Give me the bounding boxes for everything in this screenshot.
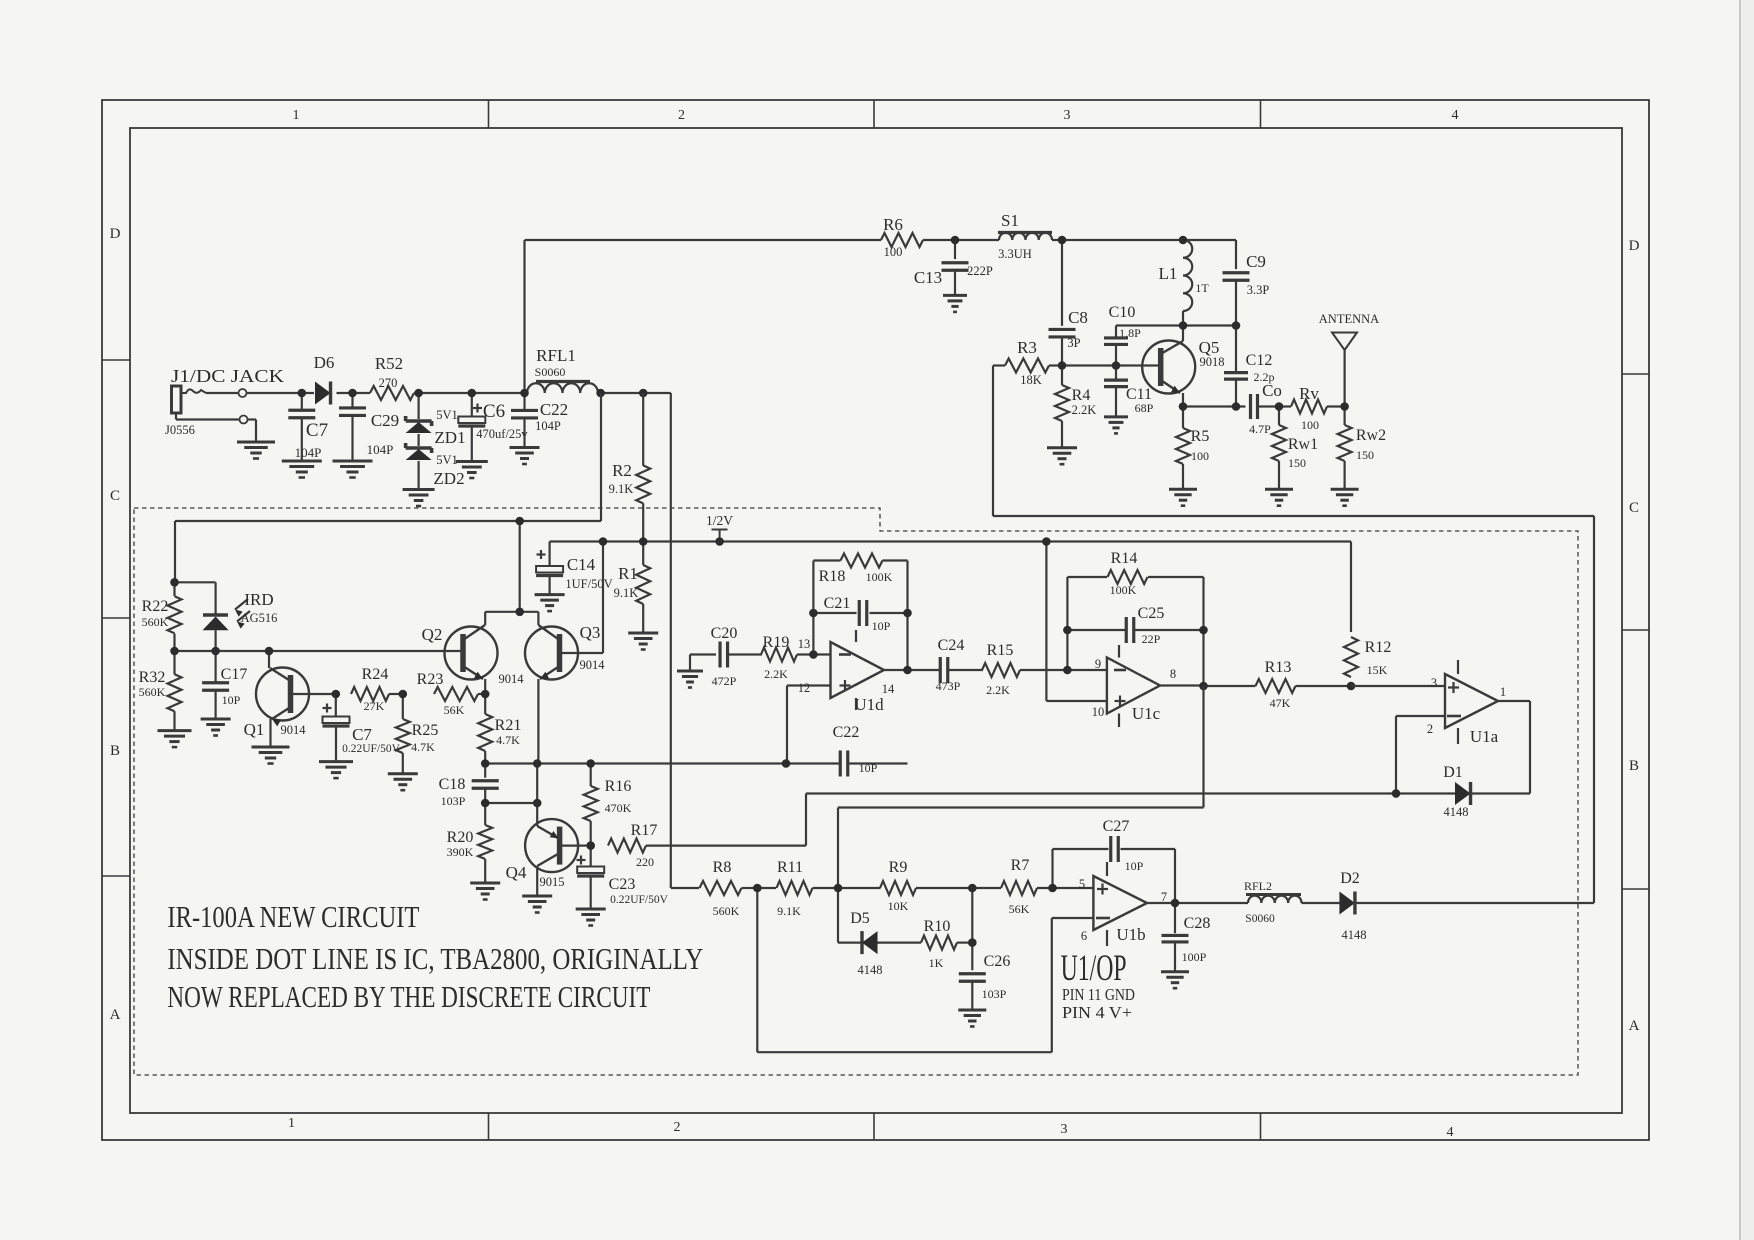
svg-text:560K: 560K <box>139 685 166 699</box>
svg-text:C6: C6 <box>483 401 505 422</box>
pin label 1 <box>1500 685 1506 699</box>
svg-text:C8: C8 <box>1068 308 1088 327</box>
svg-text:C9: C9 <box>1246 252 1266 271</box>
svg-text:B: B <box>1629 758 1639 774</box>
svg-text:9.1K: 9.1K <box>614 586 639 600</box>
svg-text:9014: 9014 <box>281 723 307 737</box>
capacitor C21 <box>813 595 907 633</box>
ground R1 <box>628 633 658 650</box>
svg-text:15K: 15K <box>1367 663 1388 677</box>
svg-text:Q3: Q3 <box>580 623 601 642</box>
resistor R18 <box>813 554 907 671</box>
capacitor C23 <box>577 846 669 906</box>
svg-text:472P: 472P <box>712 674 737 688</box>
svg-text:Q1: Q1 <box>244 720 265 739</box>
svg-text:100: 100 <box>1301 418 1319 432</box>
svg-text:470K: 470K <box>605 801 632 815</box>
svg-text:4.7K: 4.7K <box>411 740 435 754</box>
svg-text:R22: R22 <box>142 598 169 615</box>
resistor R23 <box>417 671 486 717</box>
svg-text:R12: R12 <box>1365 639 1392 656</box>
wire half-V rail <box>550 540 1351 542</box>
svg-text:R20: R20 <box>447 829 474 846</box>
ground C7 input <box>282 418 322 478</box>
pin label 10 <box>1092 705 1105 719</box>
svg-text:R9: R9 <box>889 859 908 876</box>
svg-text:D1: D1 <box>1443 764 1463 781</box>
svg-text:PIN 4 V+: PIN 4 V+ <box>1062 1003 1132 1022</box>
resistor R21 <box>478 694 521 764</box>
svg-text:Q2: Q2 <box>422 625 443 644</box>
border grid ticks <box>102 100 1649 1140</box>
border inner frame <box>130 128 1622 1113</box>
pin label 6 <box>1081 929 1087 943</box>
transistor Q2 9014 <box>422 612 525 694</box>
svg-text:9018: 9018 <box>1200 355 1225 369</box>
svg-text:A: A <box>110 1007 121 1023</box>
svg-text:4148: 4148 <box>1342 928 1367 942</box>
wire U1c output <box>1160 630 1204 686</box>
ground R4 <box>1047 421 1077 464</box>
svg-text:9014: 9014 <box>499 672 525 686</box>
border zone letters <box>110 226 1640 1034</box>
border grid numbers <box>288 108 1459 1140</box>
junction dots DC rail <box>298 389 648 398</box>
wire U1a output <box>1498 701 1530 794</box>
svg-text:103P: 103P <box>441 794 466 808</box>
resistor R7 <box>972 857 1093 916</box>
ground C28 <box>1161 942 1189 988</box>
svg-text:R25: R25 <box>412 722 439 739</box>
svg-text:R17: R17 <box>631 822 658 839</box>
wire pin8 link <box>838 686 1204 888</box>
wire S1 to C9 <box>1052 239 1236 241</box>
svg-text:R19: R19 <box>763 634 790 651</box>
capacitor C6 <box>458 393 528 441</box>
svg-text:4: 4 <box>1452 108 1459 123</box>
svg-text:150: 150 <box>1288 456 1306 470</box>
op-amp U1b <box>1093 862 1147 946</box>
svg-text:8: 8 <box>1170 667 1176 681</box>
capacitor C10 <box>1104 304 1141 366</box>
resistor R11 <box>757 859 838 918</box>
svg-text:2: 2 <box>1427 722 1433 736</box>
diode D1 <box>1396 764 1530 819</box>
resistor Rw1 <box>1272 407 1318 471</box>
svg-text:C21: C21 <box>824 595 851 612</box>
svg-text:R32: R32 <box>139 669 166 686</box>
junction dots U1d <box>782 609 912 768</box>
svg-text:56K: 56K <box>444 703 465 717</box>
resistor R12 <box>1344 542 1391 687</box>
zener ZD1 <box>406 393 466 447</box>
svg-text:C12: C12 <box>1246 352 1273 369</box>
svg-text:4148: 4148 <box>858 963 883 977</box>
wire C18 to Q4 <box>485 763 537 827</box>
resistor Rw2 <box>1338 407 1387 463</box>
resistor R22 <box>142 582 182 651</box>
svg-text:104P: 104P <box>295 445 322 460</box>
svg-text:S0060: S0060 <box>535 365 566 379</box>
svg-text:J1/DC JACK: J1/DC JACK <box>171 366 284 386</box>
svg-text:ZD2: ZD2 <box>433 469 464 488</box>
ground C13 <box>943 270 967 312</box>
svg-text:U1/OP: U1/OP <box>1061 948 1127 989</box>
wire top collector rail <box>175 393 601 582</box>
svg-text:C25: C25 <box>1138 605 1165 622</box>
capacitor C12 <box>1224 326 1275 407</box>
svg-text:5: 5 <box>1079 877 1085 891</box>
svg-text:U1b: U1b <box>1116 925 1145 944</box>
inductor L1 <box>1159 240 1210 326</box>
svg-text:C29: C29 <box>371 411 399 430</box>
title line 1 <box>167 899 419 934</box>
wire Q1 base <box>291 693 336 695</box>
svg-text:1: 1 <box>293 108 300 123</box>
svg-text:U1a: U1a <box>1470 727 1499 746</box>
svg-text:PIN 11 GND: PIN 11 GND <box>1062 985 1135 1004</box>
svg-text:C22: C22 <box>540 400 568 419</box>
svg-text:103P: 103P <box>982 987 1007 1001</box>
svg-text:220: 220 <box>636 855 654 869</box>
transistor Q4 9015 <box>506 819 591 896</box>
wire Q2 Q3 collectors <box>485 521 538 612</box>
wire R6 to S1 <box>923 239 999 241</box>
pin label 8 <box>1170 667 1176 681</box>
resistor R14 <box>1067 550 1203 670</box>
svg-text:Rw1: Rw1 <box>1288 436 1318 453</box>
svg-text:3: 3 <box>1431 676 1437 690</box>
svg-text:ZD1: ZD1 <box>434 428 465 447</box>
svg-text:R18: R18 <box>819 568 846 585</box>
svg-text:R6: R6 <box>883 215 903 234</box>
svg-text:D2: D2 <box>1340 870 1360 887</box>
border outer frame <box>102 100 1649 1140</box>
capacitor C20 <box>711 625 738 688</box>
svg-text:C10: C10 <box>1109 304 1136 321</box>
svg-text:J0556: J0556 <box>165 423 195 437</box>
svg-text:222P: 222P <box>967 264 993 278</box>
svg-text:C18: C18 <box>439 776 466 793</box>
photodiode IRD AG516 <box>175 582 278 651</box>
svg-text:5V1: 5V1 <box>436 453 458 467</box>
pin label 13 <box>798 637 811 651</box>
wire +V riser <box>525 240 882 393</box>
svg-text:R21: R21 <box>495 717 522 734</box>
ground ZD2 <box>403 461 435 506</box>
svg-text:100P: 100P <box>1182 950 1207 964</box>
label U1 OP <box>1061 948 1127 989</box>
wire U1d output <box>884 669 940 671</box>
ground C14 <box>535 576 565 612</box>
svg-text:D: D <box>110 226 121 242</box>
ground C23 <box>576 876 606 926</box>
ground C20 <box>677 655 716 688</box>
capacitor C13 <box>914 240 993 287</box>
svg-text:3.3P: 3.3P <box>1247 283 1270 297</box>
capacitor C7 022 <box>323 694 401 755</box>
ground C6 <box>456 426 488 478</box>
capacitor C7 input <box>288 393 328 460</box>
svg-text:68P: 68P <box>1135 401 1154 415</box>
svg-text:C: C <box>1629 500 1639 516</box>
svg-text:S1: S1 <box>1001 211 1019 230</box>
transistor Q3 9014 <box>525 542 605 763</box>
diode D2 <box>1339 870 1594 942</box>
wire U1c plus input <box>1046 542 1107 702</box>
ground C22 power <box>510 418 540 464</box>
svg-text:3: 3 <box>1061 1122 1068 1137</box>
wire U1b inv loop <box>757 888 1093 1052</box>
svg-text:R13: R13 <box>1265 659 1292 676</box>
svg-text:2.2K: 2.2K <box>764 667 788 681</box>
capacitor C28 <box>1162 903 1211 964</box>
svg-text:AG516: AG516 <box>241 611 278 625</box>
op-amp U1a <box>1445 660 1499 746</box>
svg-text:RFL2: RFL2 <box>1244 879 1272 893</box>
svg-text:10P: 10P <box>872 619 891 633</box>
resistor R15 <box>948 642 1107 697</box>
svg-text:R52: R52 <box>375 354 403 373</box>
svg-text:2: 2 <box>674 1120 681 1135</box>
svg-text:C27: C27 <box>1103 818 1130 835</box>
ground C29 <box>333 416 373 478</box>
pin label 9 <box>1095 657 1101 671</box>
pin label 14 <box>882 682 895 696</box>
svg-text:R2: R2 <box>612 461 632 480</box>
svg-text:D5: D5 <box>850 910 870 927</box>
svg-text:4148: 4148 <box>1444 805 1469 819</box>
capacitor C14 <box>536 542 613 592</box>
resistor R25 <box>396 694 439 774</box>
wire DC rail <box>247 393 671 888</box>
svg-text:9.1K: 9.1K <box>777 904 801 918</box>
pin label 7 <box>1161 890 1167 904</box>
svg-text:100: 100 <box>884 245 903 259</box>
transistor Q5 9018 <box>1142 326 1224 407</box>
inductor S1 <box>998 211 1052 261</box>
svg-text:INSIDE DOT LINE IS IC, TBA2800: INSIDE DOT LINE IS IC, TBA2800, ORIGINAL… <box>167 941 703 976</box>
wire R13 to U1a <box>1351 685 1445 687</box>
label PIN 11 GND <box>1062 985 1135 1004</box>
ground C26 <box>958 981 986 1026</box>
wire U1b output <box>1147 902 1248 904</box>
svg-text:C: C <box>110 488 120 504</box>
ground Rw1 <box>1265 461 1293 506</box>
svg-text:C13: C13 <box>914 268 942 287</box>
svg-text:47K: 47K <box>1270 696 1291 710</box>
ground R20 <box>470 883 500 900</box>
svg-text:9: 9 <box>1095 657 1101 671</box>
capacitor C22 fb <box>833 724 878 777</box>
svg-text:R16: R16 <box>605 778 632 795</box>
wire base rail <box>175 650 463 652</box>
svg-text:390K: 390K <box>447 845 474 859</box>
svg-text:C23: C23 <box>609 876 636 893</box>
svg-text:470uf/25v: 470uf/25v <box>476 427 528 441</box>
svg-text:100K: 100K <box>1110 583 1137 597</box>
svg-text:1: 1 <box>1500 685 1506 699</box>
svg-text:NOW REPLACED BY THE DISCRETE C: NOW REPLACED BY THE DISCRETE CIRCUIT <box>167 979 650 1014</box>
capacitor C9 <box>1223 240 1270 326</box>
resistor R2 <box>609 393 651 542</box>
title line 3 <box>167 979 650 1014</box>
resistor Rv <box>1279 384 1345 432</box>
resistor R10 <box>878 918 973 970</box>
svg-text:1: 1 <box>288 1116 295 1131</box>
svg-text:R4: R4 <box>1072 387 1091 404</box>
svg-text:RFL1: RFL1 <box>536 346 576 365</box>
svg-text:2.2K: 2.2K <box>1072 403 1097 417</box>
dashed IC boundary TBA2800 <box>134 508 1578 1075</box>
inductor RFL1 <box>527 346 598 393</box>
svg-text:ANTENNA: ANTENNA <box>1319 312 1379 326</box>
resistor R8 <box>700 859 758 918</box>
svg-text:Q4: Q4 <box>506 863 527 882</box>
svg-text:14: 14 <box>882 682 895 696</box>
resistor R24 <box>351 666 403 713</box>
svg-text:B: B <box>110 743 120 759</box>
svg-text:10K: 10K <box>888 899 909 913</box>
wire R3 to output net <box>993 366 1594 904</box>
op-amp U1d <box>831 630 885 714</box>
svg-text:10P: 10P <box>222 693 241 707</box>
svg-text:100: 100 <box>1191 449 1209 463</box>
svg-text:C22: C22 <box>833 724 860 741</box>
svg-text:13: 13 <box>798 637 811 651</box>
ground C17 <box>201 719 231 736</box>
svg-text:3.3UH: 3.3UH <box>998 247 1032 261</box>
svg-text:C14: C14 <box>567 555 596 574</box>
svg-text:104P: 104P <box>535 419 561 433</box>
junction dots U1b <box>753 884 1179 947</box>
ground jack sleeve <box>237 420 275 459</box>
svg-text:C17: C17 <box>221 666 248 683</box>
ground R32 <box>158 731 192 748</box>
junction dots input stage <box>170 517 595 850</box>
svg-text:18K: 18K <box>1020 373 1042 387</box>
wire C8 to base <box>1061 337 1063 366</box>
pin label 2 <box>1427 722 1433 736</box>
wire U1a inv input <box>1396 716 1445 794</box>
svg-text:R14: R14 <box>1111 550 1138 567</box>
svg-text:C28: C28 <box>1184 915 1211 932</box>
resistor R13 <box>1204 659 1352 710</box>
resistor R3 <box>993 338 1062 387</box>
inductor RFL2 <box>1244 879 1302 925</box>
svg-text:22P: 22P <box>1142 632 1161 646</box>
svg-text:2: 2 <box>678 108 685 123</box>
svg-text:100K: 100K <box>866 570 893 584</box>
svg-text:U1c: U1c <box>1132 704 1161 723</box>
ground Rw2 <box>1331 461 1359 506</box>
svg-text:R11: R11 <box>777 859 803 876</box>
resistor R6 <box>881 215 923 259</box>
wire RFL2 to D2 <box>1302 902 1340 904</box>
wire base line <box>1062 364 1161 366</box>
svg-text:104P: 104P <box>367 442 394 457</box>
svg-text:1UF/50V: 1UF/50V <box>565 577 612 591</box>
svg-text:R1: R1 <box>618 564 638 583</box>
svg-text:10P: 10P <box>859 761 878 775</box>
resistor R1 <box>614 542 651 634</box>
svg-text:R8: R8 <box>713 859 732 876</box>
svg-text:IRD: IRD <box>244 590 273 609</box>
wire U1d plus input <box>787 686 831 764</box>
svg-text:C24: C24 <box>938 637 965 654</box>
svg-text:6: 6 <box>1081 929 1087 943</box>
svg-text:C20: C20 <box>711 625 738 642</box>
svg-text:C7: C7 <box>306 420 328 441</box>
svg-text:9014: 9014 <box>580 658 606 672</box>
svg-text:Co: Co <box>1262 381 1282 400</box>
pin label 3 <box>1431 676 1437 690</box>
antenna <box>1319 312 1379 407</box>
svg-text:10: 10 <box>1092 705 1105 719</box>
ground C11 <box>1104 387 1128 434</box>
svg-text:12: 12 <box>798 681 811 695</box>
ground Q1 <box>252 747 290 764</box>
resistor R52 <box>370 354 414 400</box>
svg-text:R7: R7 <box>1011 857 1030 874</box>
svg-text:4.7P: 4.7P <box>1249 422 1271 436</box>
capacitor C24 <box>936 637 965 693</box>
resistor R16 <box>584 764 632 846</box>
diode D6 <box>314 353 335 405</box>
pin label 5 <box>1079 877 1085 891</box>
svg-text:4: 4 <box>1447 1125 1454 1140</box>
svg-text:0.22UF/50V: 0.22UF/50V <box>610 894 669 906</box>
svg-text:R3: R3 <box>1017 338 1037 357</box>
wire emitter mid rail <box>485 762 907 764</box>
resistor R17 <box>608 794 1396 870</box>
svg-text:C26: C26 <box>984 953 1011 970</box>
resistor R32 <box>139 651 182 731</box>
op-amp U1c <box>1107 645 1161 727</box>
resistor R5 <box>1176 407 1209 465</box>
svg-text:D6: D6 <box>314 353 335 372</box>
resistor R9 <box>838 859 972 913</box>
capacitor C8 <box>1049 240 1088 350</box>
svg-text:4.7K: 4.7K <box>496 733 520 747</box>
svg-text:5V1: 5V1 <box>436 408 458 422</box>
wire emitter line <box>1183 405 1246 407</box>
svg-text:A: A <box>1629 1018 1640 1034</box>
pin label 12 <box>798 681 811 695</box>
svg-text:3: 3 <box>1064 108 1071 123</box>
connector J1 DC jack <box>165 366 284 437</box>
zener ZD2 <box>406 434 465 488</box>
ground C7 022 <box>319 726 353 778</box>
capacitor C25 <box>1067 605 1203 646</box>
svg-text:473P: 473P <box>936 679 961 693</box>
svg-text:C7: C7 <box>352 725 372 744</box>
net label 1/2V <box>706 513 733 542</box>
svg-text:IR-100A NEW CIRCUIT: IR-100A NEW CIRCUIT <box>167 899 419 934</box>
svg-text:S0060: S0060 <box>1245 913 1275 925</box>
junction dots RF <box>951 236 1349 411</box>
svg-text:9015: 9015 <box>540 875 565 889</box>
svg-text:10P: 10P <box>1125 859 1144 873</box>
capacitor C29 <box>339 393 399 457</box>
svg-text:D: D <box>1629 238 1640 254</box>
resistor R4 <box>1055 366 1096 422</box>
svg-text:R10: R10 <box>924 918 951 935</box>
svg-text:2.2K: 2.2K <box>986 683 1010 697</box>
capacitor C22 power <box>511 393 568 433</box>
wire collector line <box>1116 324 1236 326</box>
ground R5 <box>1169 464 1197 506</box>
